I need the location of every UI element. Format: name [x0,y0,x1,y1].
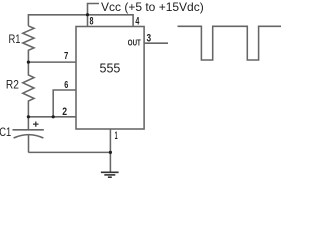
svg-text:R1: R1 [9,32,21,46]
waveform output square wave [178,26,282,60]
node junction pin2/R2/C1 [27,115,30,118]
node junction pin7/R1/R2 [27,61,30,64]
svg-text:555: 555 [100,62,121,76]
svg-text:7: 7 [64,51,69,62]
wire Vcc tick [88,4,100,15]
svg-text:R2: R2 [6,78,19,92]
svg-text:1: 1 [115,130,118,142]
wire pin 2 [28,116,76,118]
capacitor C1 bottom lead [28,135,30,153]
node junction bottom/gnd [109,151,112,154]
IC U1 555 timer body [76,27,144,130]
ground bar 3 [108,176,112,178]
wire Vcc top rail [28,15,133,27]
node junction pin6 drop [52,115,55,118]
svg-text:Vcc (+5 to +15Vdc): Vcc (+5 to +15Vdc) [101,0,204,14]
capacitor C1 plate [13,129,44,131]
svg-text:6: 6 [64,79,68,91]
wire pin 3 output [144,42,168,44]
capacitor C1 top lead [27,117,29,130]
svg-text:4: 4 [135,16,140,28]
resistor R2 [23,62,34,117]
wire bottom rail [28,151,110,153]
wire pin 7 [28,61,76,63]
svg-text:8: 8 [90,16,94,28]
ground bar 2 [104,174,115,176]
wire pin 8 drop [87,15,89,27]
svg-text:OUT: OUT [128,39,141,48]
resistor R1 [23,26,34,62]
ground bar 1 [101,171,119,173]
plus polarity mark [33,122,39,127]
wire pin 6 [53,90,76,117]
svg-text:3: 3 [147,32,152,44]
capacitor C1 curved plate [14,135,44,138]
svg-text:2: 2 [62,106,67,118]
wire pin 1 [109,129,111,172]
node junction top rail [86,13,89,16]
svg-text:C1: C1 [0,125,11,139]
